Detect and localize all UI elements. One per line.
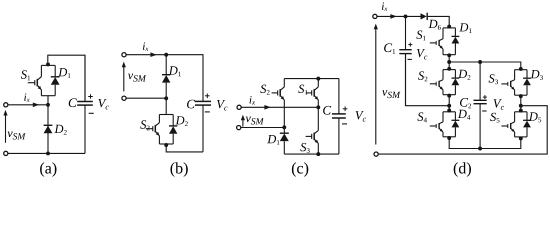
plus sign (d) C1 [408, 44, 412, 46]
label V_c (d) C1 [417, 49, 427, 60]
label D4 (d) [458, 110, 471, 120]
node (b) pair bottom junction [164, 143, 168, 147]
terminal (c) top-left [237, 105, 241, 109]
plus sign (a) [88, 96, 93, 98]
switch pair S1/D1 (d) [443, 27, 455, 29]
node (a) D2 bottom junction [46, 151, 50, 155]
node (d) level-2 rail junction left [447, 60, 451, 64]
capacitor C (b) [202, 100, 204, 102]
wire (c) bottom input to left-leg midpoint [241, 127, 284, 129]
terminal (b) top-left [122, 53, 126, 57]
wire (a) bottom rail [8, 152, 85, 154]
plus sign (d) C2 [483, 96, 487, 98]
label S3 (c) [300, 143, 309, 153]
diode D2 (a) [44, 124, 53, 126]
capacitor C (a) [84, 55, 86, 101]
terminal (a) bottom-left [4, 151, 8, 155]
wire (c) bottom rail [284, 153, 339, 155]
node (b) top junction [164, 53, 168, 57]
wire (b) mid input [126, 97, 166, 99]
label v_SM (d) [382, 90, 400, 98]
node (d) pair S5 bottom [519, 136, 523, 140]
switch pair S1/D1 (a) frame [41, 64, 55, 66]
wire (c) input to right-leg midpoint [241, 106, 318, 108]
wire (a) input to node A [8, 104, 48, 106]
capacitor C1 (d) [405, 16, 407, 49]
wire (b) bottom rail [166, 144, 203, 152]
transistor S2 (b) IGBT [158, 115, 160, 123]
label C1 (d) [384, 43, 395, 53]
caption (d) [454, 162, 471, 177]
label D1 (a) [58, 68, 70, 78]
node (d) pair S1 bottom [447, 53, 451, 57]
node (d) right midpoint junction [519, 104, 523, 108]
current arrow i_x (b) [150, 52, 156, 57]
label C (c) [323, 106, 331, 115]
node (c) right-leg midpoint [316, 105, 320, 109]
capacitor C2 (d) [479, 62, 481, 100]
diode D1 (b) [165, 55, 167, 75]
label i_x (a) [24, 93, 30, 102]
diode D1 (a) antiparallel [54, 65, 56, 76]
node (d) above pair S1 [447, 25, 451, 29]
node (d) above pair S2 [447, 67, 451, 71]
switch pair S2/D2 (d) [443, 69, 455, 71]
node (c) left-leg midpoint [282, 125, 286, 129]
label S4 (d) [417, 112, 427, 122]
caption (c) [292, 162, 308, 177]
current arrow i_x (d) [390, 14, 396, 19]
diode D1 (c) left leg bottom [283, 128, 285, 134]
label S1 (c) [298, 85, 307, 95]
label S2 (c) [260, 85, 269, 95]
node (d) C1 wire junction [447, 104, 451, 108]
label D2 (a) [54, 125, 66, 135]
switch pair S4/D4 (d) [443, 111, 455, 113]
wire (d) right midpoint to bottom terminal [378, 106, 547, 154]
wire (d) right leg between pairs [520, 95, 522, 112]
minus sign (d) C1 [408, 58, 412, 60]
label S5 (d) [490, 113, 499, 123]
node (d) C2 top junction [478, 60, 482, 64]
node (d) above pair S5 [519, 109, 523, 113]
caption (a) [40, 162, 56, 177]
plus sign (c) [343, 108, 348, 110]
label V_c (d) C2 [494, 99, 504, 110]
diode D2 (b) antiparallel [172, 115, 174, 126]
capacitor C (c) [338, 79, 340, 114]
label C (a) [69, 98, 77, 107]
wire (a) node A to D2 to bottom rail [47, 105, 49, 154]
label D3 (d) [531, 70, 543, 80]
minus sign (d) C2 [482, 110, 486, 112]
label i_x (b) [143, 42, 149, 51]
voltage arrow v_SM (b) [123, 67, 125, 92]
node (d) C2 bottom junction [478, 147, 482, 151]
label v_SM (b) [128, 74, 146, 82]
label D2 (b) [176, 116, 188, 126]
diode D6 (d) horizontal [421, 13, 427, 19]
switch pair S3/D3 (d) [515, 69, 527, 71]
wire (a) top rail [48, 55, 85, 101]
label i_x (c) [250, 96, 256, 105]
label V_c (a) [98, 99, 108, 110]
switch pair S5/D5 (d) [515, 111, 527, 113]
voltage arrow v_SM (c) [242, 120, 244, 127]
label D5 (d) [529, 112, 541, 122]
label S1 (a) [21, 70, 30, 80]
node (d) pair S2 bottom [447, 94, 451, 98]
node A (a) input junction [46, 103, 50, 107]
node (d) above pair S3 [519, 67, 523, 71]
label V_c (c) [356, 111, 366, 122]
label S3 (d) [489, 74, 498, 84]
minus sign (a) [89, 112, 94, 114]
wire (b) input top [126, 54, 166, 56]
label C (b) [187, 100, 195, 109]
label D1 (c) [267, 135, 279, 145]
terminal (a) top-left input [4, 103, 8, 107]
transistor S2 (c) IGBT left leg [283, 79, 285, 87]
transistor S1 (a) IGBT [40, 65, 42, 76]
current arrow i_x (a) [33, 103, 39, 108]
terminal (b) mid-left [122, 96, 126, 100]
minus sign (c) [342, 123, 347, 125]
node (a) pair top junction [46, 62, 50, 66]
switch pair S2/D2 (b) frame [159, 114, 173, 116]
wire (b) top rail to capacitor [166, 55, 203, 102]
label C2 (d) [460, 98, 471, 108]
label D1 (d) [459, 23, 471, 33]
caption (b) [171, 162, 188, 177]
node (d) pair S4 bottom [447, 136, 451, 140]
minus sign (b) [205, 111, 210, 113]
wire (d) top rail to left leg [427, 16, 449, 28]
node (c) top-right junction [316, 77, 320, 81]
wire (d) top input [377, 15, 421, 17]
current arrow i_x (c) [264, 105, 270, 110]
node (b) mid junction [164, 96, 168, 100]
node (d) above pair S4 [447, 109, 451, 113]
wire (d) C1 bottom to left leg [406, 54, 450, 106]
plus sign (b) [205, 95, 210, 97]
label D6 (d) [429, 20, 441, 30]
label D2 (d) [458, 70, 470, 80]
label S2 (d) [418, 71, 427, 81]
label v_SM (c) [246, 117, 264, 125]
label V_c (b) [217, 100, 227, 111]
label v_SM (a) [8, 132, 26, 140]
transistor S3 (c) IGBT right leg bottom [317, 107, 319, 130]
wire (c) top rail [284, 78, 339, 80]
voltage arrow v_SM (a) [5, 115, 7, 143]
label i_x (d) [382, 2, 388, 11]
wire (d) level-2 rail [449, 62, 521, 70]
label S1 (d) [416, 31, 425, 41]
terminal (d) bottom [374, 152, 378, 156]
transistor S1 (c) IGBT right leg top [317, 79, 319, 87]
wire (d) left leg between pairs 2-3 [448, 95, 450, 112]
node (d) pair S3 bottom [519, 94, 523, 98]
node (d) C1 top junction [404, 14, 408, 18]
label S2 (b) [140, 120, 149, 130]
wire (d) bottom rail [449, 137, 521, 149]
wire (d) left leg between pairs 1-2 [448, 55, 450, 70]
voltage arrow v_SM (d) [375, 29, 377, 144]
terminal (d) top-left [373, 14, 377, 18]
terminal (c) bottom-left [237, 126, 241, 130]
label D1 (b) [169, 66, 181, 76]
node (c) bottom-right junction [316, 152, 320, 156]
